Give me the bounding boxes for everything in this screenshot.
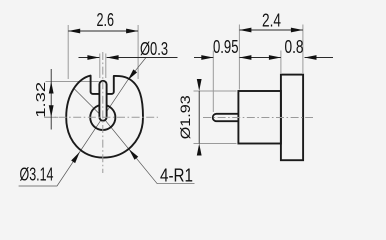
radial line to top-left corner [74, 89, 103, 118]
dimension 0.95 / 0.8 chain line [194, 37, 333, 60]
extension line dia 1.93 top [194, 90, 237, 92]
center pin (capsule) [99, 81, 106, 121]
svg-text:1.32: 1.32 [33, 82, 48, 118]
extension line 2.6 left [67, 25, 69, 79]
leader line dia 3.14 through bottom-left corner to center [19, 117, 103, 186]
centerline vertical front view [102, 52, 104, 173]
dimension 2.4 [239, 11, 303, 33]
svg-text:Ø0.3: Ø0.3 [140, 39, 168, 59]
dimension 1.32 [33, 69, 54, 130]
side view flange rectangle [281, 75, 303, 161]
dimension dia 0.3 [79, 39, 178, 60]
dimension dia 1.93 [178, 79, 202, 156]
dimension 2.6 [68, 10, 138, 33]
extension line 2.4/0.8 right (flange back) [302, 25, 304, 74]
side view body rectangle [238, 91, 281, 144]
svg-text:4-R1: 4-R1 [160, 166, 193, 186]
centerline horizontal side view [203, 117, 313, 119]
counterbore circle [90, 105, 115, 130]
leader line 4-R1 through bottom-right corner to center [103, 117, 195, 183]
svg-text:0.8: 0.8 [285, 37, 304, 57]
arrowhead on top-right corner (R1 leader) [126, 69, 137, 81]
extension line 2.4/0.95 shared (body face) [238, 25, 240, 90]
svg-text:Ø3.14: Ø3.14 [20, 165, 54, 185]
svg-text:0.95: 0.95 [213, 37, 239, 57]
svg-text:Ø1.93: Ø1.93 [178, 95, 193, 139]
svg-text:2.4: 2.4 [262, 11, 281, 31]
body outline (rounded blank with top notch) [66, 76, 143, 158]
svg-text:2.6: 2.6 [97, 10, 115, 30]
extension line 0.95 left (pin tip) [212, 51, 214, 113]
extension line 1.32 top [46, 81, 99, 83]
side view pin (capsule) [213, 114, 239, 121]
radial line to top-right corner with leader to dia 0.3 line [103, 58, 146, 118]
extension line 1.32 bottom [45, 116, 59, 118]
extension line pin 0.3 left [99, 54, 101, 79]
extension line 0.8 left (flange face) [280, 51, 282, 74]
label 4-R1 with arrowhead [127, 147, 193, 185]
extension line pin 0.3 right [105, 54, 107, 79]
centerline horizontal front view [44, 116, 158, 118]
label dia 3.14 with arrowhead [20, 150, 82, 184]
extension line dia 1.93 bottom [194, 143, 237, 145]
extension line 2.6 right [137, 25, 139, 79]
